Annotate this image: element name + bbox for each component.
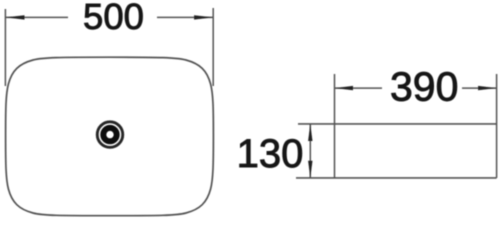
side view: right edge / 390 extension right bbox=[496, 74, 498, 178]
side view: bottom edge (with 130 extension) bbox=[296, 177, 497, 179]
dim 500: extension line left bbox=[4, 9, 6, 86]
dim 500: dimension line right + arrow bbox=[157, 16, 213, 18]
side view: top edge (with 130 extension) bbox=[298, 123, 497, 125]
svg-text:500: 500 bbox=[83, 0, 144, 37]
svg-text:390: 390 bbox=[390, 64, 458, 110]
drain inner ring bbox=[103, 128, 116, 141]
dim 130: dimension line + arrows bbox=[309, 124, 311, 178]
dim 500: dimension line left + arrow bbox=[5, 16, 68, 18]
dim 390: dimension line right + arrow bbox=[462, 87, 497, 89]
dim 390: dimension line left + arrow bbox=[335, 87, 383, 89]
basin top view outline bbox=[6, 57, 214, 216]
svg-text:130: 130 bbox=[237, 132, 304, 176]
drain outer ring bbox=[97, 122, 123, 148]
dim 500: extension line right bbox=[212, 8, 214, 86]
side view: left edge / 390 extension left bbox=[334, 74, 336, 178]
